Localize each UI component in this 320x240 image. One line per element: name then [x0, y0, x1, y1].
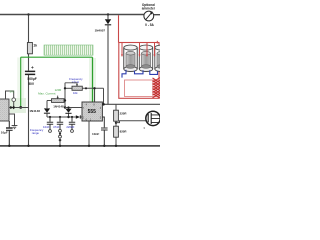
terminal circle test point	[12, 98, 16, 102]
svg-text:1N4148: 1N4148	[29, 109, 40, 113]
svg-text:220nF: 220nF	[66, 125, 74, 129]
wire top supply rail	[0, 14, 160, 16]
potentiometer VR2 body	[72, 86, 82, 90]
node top diode junction	[107, 13, 109, 15]
cell B2	[139, 45, 152, 71]
node top-left junction	[27, 13, 29, 15]
svg-text:5V1: 5V1	[10, 89, 15, 93]
wire green net right vertical to pin4	[92, 57, 94, 102]
wire 555 pin7 row	[65, 107, 82, 109]
svg-text:range: range	[32, 131, 40, 135]
wire circle to node	[13, 102, 15, 108]
IC U1 555 body	[82, 102, 102, 121]
ammeter needle	[146, 13, 152, 20]
svg-text:10nF: 10nF	[43, 125, 50, 129]
svg-text:10k: 10k	[73, 91, 78, 95]
cell B1	[124, 45, 137, 71]
svg-text:500µF: 500µF	[27, 77, 36, 81]
svg-text:ammeter: ammeter	[142, 7, 156, 11]
svg-text:1N4007: 1N4007	[95, 29, 106, 33]
terminal circle C4	[59, 129, 62, 132]
svg-text:1k: 1k	[33, 44, 37, 48]
svg-text:Max. Current: Max. Current	[38, 92, 56, 96]
transistor Q1 MOSFET	[146, 111, 160, 125]
node test point junction	[13, 106, 15, 108]
cell B3 clipped	[155, 45, 168, 71]
potentiometer VR1 wiper arrow	[57, 96, 59, 98]
node rail junction left	[8, 145, 10, 147]
svg-text:10µF: 10µF	[1, 131, 8, 135]
wire bottom ground rail	[0, 145, 160, 147]
svg-text:820R: 820R	[120, 129, 128, 133]
svg-text:120R: 120R	[55, 88, 62, 92]
node supply junction	[102, 103, 105, 106]
heatsink hatched strip	[44, 45, 93, 55]
capacitor C6 10nF control	[101, 117, 108, 146]
wire supply to drain row	[104, 103, 161, 105]
battery blue links	[122, 70, 126, 78]
wire pin8 drop	[94, 88, 96, 102]
wire gate	[116, 121, 147, 123]
diode ZD1 zener	[10, 106, 13, 109]
node cap row junctions	[49, 116, 51, 118]
wire regulator top loop	[6, 91, 14, 99]
wire cap row	[47, 116, 76, 118]
resistor R1	[114, 110, 119, 121]
wire battery sense stub red	[156, 41, 158, 44]
polarity plus mark	[31, 66, 33, 68]
svg-text:adjust: adjust	[72, 80, 80, 84]
pale green tint left	[17, 58, 24, 99]
wire green net horizontal	[21, 56, 93, 58]
node VR2 left junction	[64, 87, 66, 89]
svg-text:47nF: 47nF	[53, 125, 60, 129]
wire regulator ground pin	[9, 114, 15, 125]
coiled wire red	[153, 78, 161, 98]
svg-text:1N4148: 1N4148	[53, 105, 64, 109]
wire mid chain vertical	[64, 83, 66, 108]
svg-text:50V: 50V	[28, 82, 35, 86]
ground symbol	[12, 126, 18, 129]
wire regulator output row	[9, 107, 29, 109]
svg-text:220R: 220R	[120, 112, 128, 116]
diode D3 1N4148	[68, 108, 70, 118]
wire battery positive red	[118, 15, 120, 42]
wire green net left vertical	[20, 57, 22, 107]
pale green tint center	[89, 58, 96, 102]
terminal circle C5	[71, 130, 74, 133]
node gate junction	[115, 121, 117, 126]
capacitor C5 220nF	[69, 117, 75, 130]
battery label plate	[125, 80, 157, 97]
potentiometer VR2 wiper loop	[65, 83, 77, 87]
node VR1 right junction	[64, 99, 66, 101]
ammeter M1 circle	[144, 11, 154, 21]
capacitor C1 500uF plates	[25, 71, 35, 74]
wire left vertical drop	[28, 15, 30, 146]
terminal circle C3	[49, 130, 52, 133]
svg-text:0 - 5A: 0 - 5A	[145, 23, 154, 27]
jumper link selector	[59, 133, 61, 135]
wire VR2 right lead to supply	[82, 88, 103, 104]
battery internal red links	[122, 43, 155, 56]
svg-text:10nF: 10nF	[92, 132, 99, 136]
diode D1 1N4007	[107, 15, 109, 20]
resistor R-input	[27, 43, 32, 54]
wire 555 pin1 ground	[88, 121, 90, 146]
battery pack box red	[119, 43, 159, 99]
regulator IC U2 body	[0, 99, 9, 121]
resistor R2	[114, 126, 119, 137]
node pin8 junction	[93, 87, 95, 89]
node rail junction main drop	[27, 145, 29, 147]
node green-to-wire junction	[19, 106, 22, 109]
node pin7 junction	[64, 106, 66, 108]
wire into R1	[115, 104, 117, 110]
wire VR1 left lead	[47, 100, 52, 102]
wire VR1 right lead	[64, 100, 65, 102]
svg-text:555: 555	[88, 109, 97, 115]
diode D2 1N4148	[46, 101, 48, 109]
capacitor C3 10nF	[47, 117, 53, 130]
diode D4 to pin2	[76, 115, 80, 118]
wire VR2 left lead	[65, 87, 72, 89]
potentiometer VR1 body	[52, 99, 65, 103]
capacitor C4 47nF	[57, 117, 63, 129]
capacitor C2 10uF plates	[6, 121, 13, 146]
